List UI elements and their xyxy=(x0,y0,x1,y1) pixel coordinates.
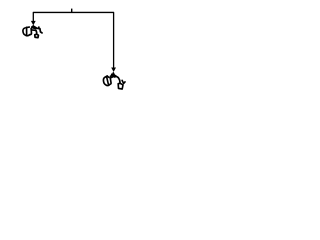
node B: bottom-right clipart icon (rotated variant) xyxy=(103,73,125,89)
arrowhead pointing down into top-left node xyxy=(31,21,36,26)
wire: connector polyline from above top-left node, along top rail, down to bottom-right node xyxy=(33,12,113,67)
arrowhead pointing down into bottom-right node xyxy=(111,68,116,73)
node A: top-left clipart icon xyxy=(23,26,42,38)
label "1" tick on top rail xyxy=(71,9,72,13)
